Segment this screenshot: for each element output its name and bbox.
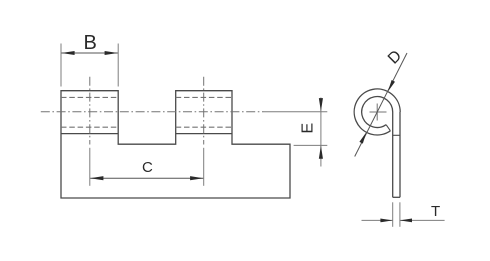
side view strip bottom edge xyxy=(393,196,400,198)
right tab vertical centerline xyxy=(203,77,205,145)
left tab bottom edge xyxy=(61,133,118,135)
svg-text:E: E xyxy=(300,123,317,134)
horizontal centerline xyxy=(41,111,264,113)
side view bend transition line xyxy=(393,134,400,136)
dimension E line xyxy=(320,98,322,167)
curl end face xyxy=(386,125,390,131)
dimension T arrow left xyxy=(380,219,392,223)
front view outline xyxy=(61,91,290,198)
dimension B arrow left xyxy=(61,51,74,55)
dimension E arrow bottom xyxy=(319,146,323,159)
hidden line right tab upper xyxy=(176,96,232,98)
svg-text:B: B xyxy=(84,32,97,54)
dimension T extension line right xyxy=(399,202,401,227)
hidden line left tab lower xyxy=(61,126,118,128)
hidden line left tab upper xyxy=(61,96,118,98)
dimension B line xyxy=(61,52,117,54)
curl center mark vertical xyxy=(376,104,378,121)
curl center mark horizontal xyxy=(370,111,387,113)
svg-text:C: C xyxy=(142,159,153,176)
side view strip right edge xyxy=(399,112,401,197)
dimension B extension line right xyxy=(117,44,119,87)
dimension C line xyxy=(90,177,203,179)
dimension C arrow left xyxy=(90,176,103,180)
dimension C extension line left xyxy=(89,148,91,186)
dimension D arrow bottom xyxy=(359,132,366,144)
dimension D arrow top xyxy=(388,80,395,92)
side view strip left edge xyxy=(392,112,394,197)
left tab vertical centerline xyxy=(89,77,91,145)
dimension T line left xyxy=(362,219,393,221)
curl outer arc xyxy=(354,89,400,135)
dimension T arrow right xyxy=(400,219,412,223)
dimension C arrow right xyxy=(190,176,203,180)
dimension E bottom extension line xyxy=(294,144,328,146)
curl inner arc xyxy=(362,97,393,128)
hidden line right tab lower xyxy=(176,126,232,128)
dimension D line xyxy=(355,53,407,157)
dimension E top extension line xyxy=(264,111,328,113)
dimension B extension line left xyxy=(60,44,62,87)
dimension B arrow right xyxy=(105,51,118,55)
dimension C extension line right xyxy=(203,148,205,186)
right tab bottom edge xyxy=(176,133,232,135)
dimension E arrow top xyxy=(319,98,323,111)
dimension T extension line left xyxy=(392,202,394,227)
svg-text:T: T xyxy=(431,203,440,220)
dimension T line right xyxy=(400,219,445,221)
